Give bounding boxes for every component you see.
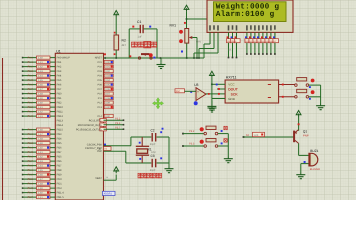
blue net label ADC xyxy=(103,191,116,195)
svg-text:1.43: 1.43 xyxy=(38,70,43,73)
U1 left pin row 11 xyxy=(22,106,24,108)
svg-text:+: + xyxy=(197,90,199,94)
svg-text:0.03: 0.03 xyxy=(105,75,110,78)
svg-text:PB1: PB1 xyxy=(57,97,62,100)
crystal ground xyxy=(168,167,170,169)
svg-text:1.42: 1.42 xyxy=(38,156,43,159)
svg-text:1.42: 1.42 xyxy=(38,66,43,69)
HX711 GND xyxy=(212,98,225,100)
U1 left pin row 4 xyxy=(22,75,24,77)
svg-text:30pF: 30pF xyxy=(150,169,156,172)
svg-text:P12: P12 xyxy=(98,102,103,105)
svg-text:0.09: 0.09 xyxy=(105,102,110,105)
svg-text:PNP: PNP xyxy=(303,133,309,137)
svg-text:P2.2: P2.2 xyxy=(28,66,34,69)
svg-text:1.40: 1.40 xyxy=(38,192,43,195)
svg-text:P1.1: P1.1 xyxy=(28,169,34,172)
svg-text:P2.6: P2.6 xyxy=(28,192,34,195)
svg-text:1.40: 1.40 xyxy=(38,102,43,105)
U1 right pin row 5 xyxy=(104,83,113,86)
svg-text:PC15/OSC32_OUT (5): PC15/OSC32_OUT (5) xyxy=(76,128,102,131)
svg-text:DOUT: DOUT xyxy=(228,88,239,92)
HX711 VCC power xyxy=(211,74,213,78)
svg-text:P0.0: P0.0 xyxy=(28,57,34,60)
svg-text:P2.2: P2.2 xyxy=(28,138,34,141)
svg-text:-: - xyxy=(197,96,198,100)
U1 left pin row 16 xyxy=(22,129,24,131)
U1 left pin row 10 xyxy=(22,102,24,104)
U1 left pin row 29 xyxy=(22,187,24,189)
U1 left pin row 26 xyxy=(22,174,24,176)
svg-text:ADDR1: ADDR1 xyxy=(104,193,113,196)
U1 right pin row 0 xyxy=(104,61,113,64)
svg-text:1.46: 1.46 xyxy=(38,174,43,177)
svg-text:PB4: PB4 xyxy=(57,138,62,141)
svg-text:PA6: PA6 xyxy=(57,84,62,87)
svg-text:4k7: 4k7 xyxy=(122,43,127,47)
svg-text:C1: C1 xyxy=(137,20,141,24)
svg-text:P2.2: P2.2 xyxy=(28,102,34,105)
U1 left pin row 27 xyxy=(22,178,24,180)
svg-text:1.48: 1.48 xyxy=(38,93,43,96)
stray blue dot xyxy=(162,128,164,130)
U1 left pin row 28 xyxy=(22,183,24,185)
svg-text:P3.3: P3.3 xyxy=(115,122,121,125)
svg-text:12M: 12M xyxy=(151,151,156,154)
svg-text:BUZZER: BUZZER xyxy=(310,168,321,171)
svg-text:P3.3: P3.3 xyxy=(28,70,34,73)
svg-text:P2.6: P2.6 xyxy=(28,84,34,87)
svg-text:P0.0: P0.0 xyxy=(28,129,34,132)
U1 left pin row 8 xyxy=(22,93,24,95)
U1 right wire P3.2 xyxy=(100,119,107,122)
U1 left pin row 0 xyxy=(22,57,24,59)
button K4 xyxy=(295,96,298,99)
svg-text:P03: P03 xyxy=(98,70,103,73)
U1 left pin row 9 xyxy=(22,97,24,99)
svg-text:1.44: 1.44 xyxy=(38,165,43,168)
svg-text:P05: P05 xyxy=(98,79,103,82)
svg-text:PB9: PB9 xyxy=(57,174,62,177)
svg-text:P04: P04 xyxy=(98,75,103,78)
svg-text:PC13_RTC: PC13_RTC xyxy=(89,119,102,122)
U1 left pin row 30 xyxy=(22,192,24,194)
svg-text:P3.3: P3.3 xyxy=(28,178,34,181)
U1 left pin row 6 xyxy=(22,84,24,86)
svg-text:PA7: PA7 xyxy=(57,88,62,91)
svg-text:C2: C2 xyxy=(151,129,155,133)
svg-text:1.43: 1.43 xyxy=(38,160,43,163)
buzzer ground xyxy=(301,163,305,165)
svg-text:0.04: 0.04 xyxy=(105,79,110,82)
pot bottom rail junctions xyxy=(151,54,153,56)
svg-text:1.45: 1.45 xyxy=(38,169,43,172)
svg-text:Weight:0000 g: Weight:0000 g xyxy=(216,2,280,11)
LCD control/data pins xyxy=(228,32,230,38)
svg-text:0.00: 0.00 xyxy=(105,115,110,118)
Q1 base net label xyxy=(243,136,245,138)
svg-text:0.05: 0.05 xyxy=(105,84,110,87)
svg-text:PA4: PA4 xyxy=(57,75,62,78)
crystal X1 xyxy=(141,137,143,146)
U1 left pin row 19 xyxy=(22,142,24,144)
svg-text:0.06: 0.06 xyxy=(105,88,110,91)
left edge clipped component xyxy=(2,58,4,200)
svg-text:P3.3: P3.3 xyxy=(189,142,195,145)
svg-text:P1.5: P1.5 xyxy=(28,151,34,154)
svg-text:SCK: SCK xyxy=(231,92,239,96)
svg-text:P3.7: P3.7 xyxy=(28,88,34,91)
op-amp ground xyxy=(211,101,213,106)
svg-text:P1.5: P1.5 xyxy=(28,187,34,190)
crystal chinese label xyxy=(138,173,143,178)
svg-text:PB5: PB5 xyxy=(57,142,62,145)
svg-text:P14: P14 xyxy=(98,115,103,118)
svg-text:PB0: PB0 xyxy=(57,93,62,96)
transistor Q1 xyxy=(293,131,295,143)
U1 right wire P3.3 xyxy=(100,123,107,126)
U1 right pin row 10 xyxy=(104,106,113,109)
svg-text:PB2: PB2 xyxy=(57,102,62,105)
svg-text:U3: U3 xyxy=(194,83,198,87)
svg-text:0.00: 0.00 xyxy=(105,61,110,64)
key button P3.2 xyxy=(182,133,184,135)
svg-text:1.47: 1.47 xyxy=(38,88,43,91)
svg-text:P0.0: P0.0 xyxy=(28,93,34,96)
svg-text:PA3: PA3 xyxy=(57,70,62,73)
svg-text:RV1: RV1 xyxy=(170,24,177,28)
svg-text:PB15: PB15 xyxy=(57,129,64,132)
svg-text:1.00: 1.00 xyxy=(254,134,259,137)
svg-text:P0.4: P0.4 xyxy=(28,75,34,78)
svg-text:PB14: PB14 xyxy=(57,124,64,127)
svg-text:P3.2: P3.2 xyxy=(189,130,195,133)
svg-text:R2: R2 xyxy=(122,39,126,43)
svg-text:1.46: 1.46 xyxy=(38,84,43,87)
svg-text:1.48: 1.48 xyxy=(38,183,43,186)
svg-text:P0.0: P0.0 xyxy=(28,165,34,168)
svg-text:P3.7: P3.7 xyxy=(115,126,121,129)
reset button xyxy=(129,55,131,57)
HX711 DOUT SCK stubs xyxy=(217,88,225,90)
U1 left pin row 5 xyxy=(22,79,24,81)
svg-text:0.08: 0.08 xyxy=(105,97,110,100)
svg-text:18.: 18. xyxy=(228,49,232,52)
Q1 power arrow xyxy=(298,114,300,118)
U1 right pin row 2 xyxy=(104,70,113,73)
op-amp input net label xyxy=(175,89,185,93)
svg-text:C3: C3 xyxy=(151,154,155,158)
svg-text:1.49: 1.49 xyxy=(38,187,43,190)
U1 left pin row 3 xyxy=(22,70,24,72)
green move cursor xyxy=(152,98,163,109)
svg-text:P11: P11 xyxy=(98,97,103,100)
svg-text:1.47: 1.47 xyxy=(38,133,43,136)
svg-text:1.44: 1.44 xyxy=(38,75,43,78)
LCD LCD1 frame xyxy=(207,0,293,32)
U1 right pin row 9 xyxy=(104,101,113,104)
svg-text:PB10: PB10 xyxy=(57,106,64,109)
svg-text:P01: P01 xyxy=(98,61,103,64)
LCD pin name smudges xyxy=(209,25,211,30)
Q1 collector wire xyxy=(298,143,300,155)
svg-text:PA1: PA1 xyxy=(57,61,62,64)
svg-text:VCC: VCC xyxy=(228,83,235,87)
U1 left pin row 25 xyxy=(22,169,24,171)
U1 left pin row 18 xyxy=(22,138,24,140)
U1 left pin row 21 xyxy=(22,151,24,153)
svg-text:1.46: 1.46 xyxy=(38,129,43,132)
svg-text:1.47: 1.47 xyxy=(38,178,43,181)
svg-text:P1.5: P1.5 xyxy=(28,115,34,118)
svg-text:1.49: 1.49 xyxy=(38,97,43,100)
svg-text:P3.3: P3.3 xyxy=(28,106,34,109)
reset circuit chinese label xyxy=(132,42,138,47)
svg-text:P07: P07 xyxy=(98,88,103,91)
svg-text:U1: U1 xyxy=(56,49,61,53)
svg-text:PB1.5: PB1.5 xyxy=(57,196,65,199)
svg-text:1.40: 1.40 xyxy=(38,147,43,150)
svg-text:PB8: PB8 xyxy=(57,169,62,172)
resistor R2 xyxy=(115,14,117,18)
RST net wire xyxy=(104,57,205,59)
svg-text:NRST: NRST xyxy=(95,57,102,60)
svg-text:1.49: 1.49 xyxy=(38,142,43,145)
op-amp minus input dot xyxy=(194,101,198,105)
svg-text:P06: P06 xyxy=(98,84,103,87)
svg-text:PB6: PB6 xyxy=(57,147,62,150)
microcontroller U1 xyxy=(55,53,103,200)
potentiometer RV1 xyxy=(186,8,188,12)
U1 left pin row 20 xyxy=(22,147,24,149)
svg-text:PB7: PB7 xyxy=(57,151,62,154)
U1 right wire P3.7 xyxy=(100,128,107,131)
svg-text:P32: P32 xyxy=(97,150,102,153)
svg-text:P2.2: P2.2 xyxy=(28,174,34,177)
svg-text:PA0-WKUP: PA0-WKUP xyxy=(57,57,71,60)
svg-text:MCO1/OSC32_IN (5): MCO1/OSC32_IN (5) xyxy=(78,124,102,127)
svg-text:FA0: FA0 xyxy=(176,90,181,93)
U1 left pin row 13 xyxy=(22,115,24,117)
svg-text:PD2: PD2 xyxy=(57,187,63,190)
svg-text:1.41: 1.41 xyxy=(38,196,43,199)
svg-text:PD1: PD1 xyxy=(57,183,63,186)
svg-text:1.45: 1.45 xyxy=(38,79,43,82)
HX711 right inner pin marks xyxy=(268,84,271,86)
svg-text:P13: P13 xyxy=(98,106,103,109)
crystal state dots xyxy=(139,142,141,144)
svg-text:P0.4: P0.4 xyxy=(28,111,34,114)
key buttons ground rail xyxy=(227,134,229,157)
svg-text:P1.1: P1.1 xyxy=(28,61,34,64)
U1 right pin row 7 xyxy=(104,92,113,95)
op-amp output wire xyxy=(206,93,225,95)
svg-text:P02: P02 xyxy=(98,66,103,69)
svg-text:PD0: PD0 xyxy=(57,178,63,181)
U1 left pin row 7 xyxy=(22,88,24,90)
svg-text:PB5: PB5 xyxy=(57,156,62,159)
svg-text:PB12: PB12 xyxy=(57,115,64,118)
crystal loop wires xyxy=(131,136,151,138)
U1 left pin row 1 xyxy=(22,61,24,63)
U1 xtal wires xyxy=(104,144,106,146)
svg-text:0.07: 0.07 xyxy=(105,93,110,96)
svg-text:PB1.4: PB1.4 xyxy=(57,192,65,195)
svg-text:FA: FA xyxy=(246,134,249,137)
svg-text:BUZ1: BUZ1 xyxy=(310,149,318,153)
U1 left pin row 2 xyxy=(22,66,24,68)
U1 left pin row 23 xyxy=(22,160,24,162)
svg-text:P1.1: P1.1 xyxy=(28,133,34,136)
key button P3.3 xyxy=(182,145,184,147)
VBAT power wire xyxy=(104,179,117,181)
svg-text:Alarm:0100 g: Alarm:0100 g xyxy=(216,10,275,19)
HX711 right wires to buttons xyxy=(279,84,295,86)
svg-text:P10: P10 xyxy=(98,93,103,96)
svg-text:1.41: 1.41 xyxy=(38,106,43,109)
svg-text:PB6: PB6 xyxy=(57,160,62,163)
U1 right pin row 8 xyxy=(104,97,113,100)
svg-text:1.48: 1.48 xyxy=(38,138,43,141)
LCD VSS VDD VEE pins staircase xyxy=(209,32,211,44)
svg-text:PB7: PB7 xyxy=(57,165,62,168)
U1 right pin row 3 xyxy=(104,74,113,77)
right buttons ground rail xyxy=(320,85,322,103)
U1 right pin row 6 xyxy=(104,88,113,91)
svg-text:1.40: 1.40 xyxy=(38,57,43,60)
svg-text:0.01: 0.01 xyxy=(105,66,110,69)
LCD screen xyxy=(214,2,287,22)
U1 left pin row 22 xyxy=(22,156,24,158)
svg-text:HX711: HX711 xyxy=(226,76,237,80)
svg-text:P3.3: P3.3 xyxy=(28,142,34,145)
U1 left pin row 12 xyxy=(22,111,24,113)
svg-text:P1.1: P1.1 xyxy=(28,97,34,100)
U1 right pin row extra xyxy=(104,114,113,117)
svg-text:30pF: 30pF xyxy=(150,143,156,146)
svg-text:1.41: 1.41 xyxy=(38,61,43,64)
svg-text:50%: 50% xyxy=(196,40,202,43)
svg-text:P3.7: P3.7 xyxy=(28,160,34,163)
svg-text:0.00: 0.00 xyxy=(105,106,110,109)
svg-text:1.41: 1.41 xyxy=(38,151,43,154)
svg-text:1.43: 1.43 xyxy=(38,115,43,118)
svg-text:PB13: PB13 xyxy=(57,120,64,123)
svg-text:P2.6: P2.6 xyxy=(28,156,34,159)
U1 left pin row 24 xyxy=(22,165,24,167)
svg-text:PB11: PB11 xyxy=(57,111,64,114)
svg-text:1uF: 1uF xyxy=(138,36,143,39)
svg-text:P3.7: P3.7 xyxy=(28,196,34,199)
svg-text:VBAT: VBAT xyxy=(95,177,102,180)
reset ground xyxy=(160,58,162,62)
svg-text:P3.2: P3.2 xyxy=(115,117,121,120)
U1 right pin row 1 xyxy=(104,65,113,68)
svg-text:PA5: PA5 xyxy=(57,79,62,82)
svg-text:P0.4: P0.4 xyxy=(28,183,34,186)
svg-text:P0.4: P0.4 xyxy=(28,147,34,150)
U1 left pin row 17 xyxy=(22,133,24,135)
svg-text:PA2: PA2 xyxy=(57,66,62,69)
svg-text:1.42: 1.42 xyxy=(38,111,43,114)
U1 right pin row 4 xyxy=(104,79,113,82)
svg-text:0.02: 0.02 xyxy=(105,70,110,73)
button K3 xyxy=(295,84,298,87)
U1 left pin row 31 xyxy=(22,196,24,198)
svg-text:PB3: PB3 xyxy=(57,133,62,136)
svg-text:P1.5: P1.5 xyxy=(28,79,34,82)
svg-text:GND: GND xyxy=(228,97,236,101)
